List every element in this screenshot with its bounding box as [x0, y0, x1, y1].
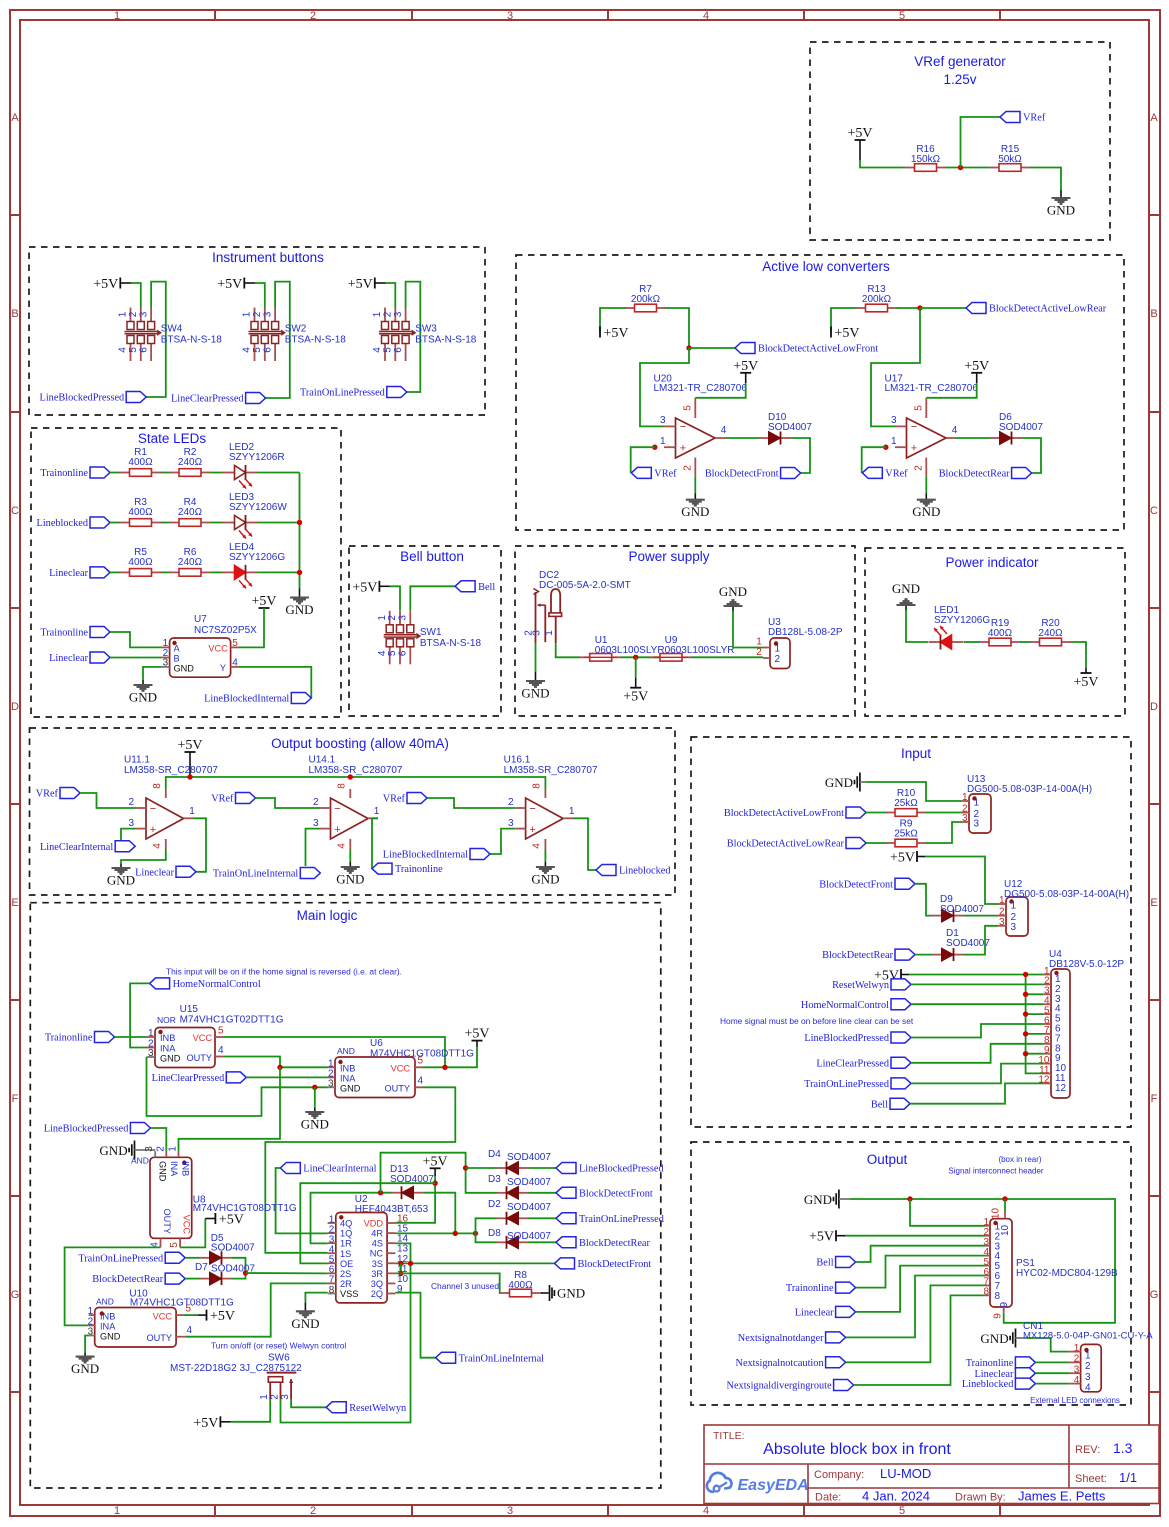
- svg-text:+5V: +5V: [219, 1213, 244, 1228]
- svg-text:BTSA-N-S-18: BTSA-N-S-18: [415, 335, 477, 346]
- net flag Bell (input): [871, 1098, 910, 1110]
- svg-text:Turn on/off (or reset) Welwyn: Turn on/off (or reset) Welwyn control: [211, 1341, 346, 1351]
- svg-text:D: D: [11, 701, 19, 713]
- svg-text:2: 2: [1074, 1354, 1080, 1365]
- title block Sheet value: [1119, 1470, 1137, 1485]
- svg-text:1Q: 1Q: [340, 1229, 352, 1239]
- power +5V (supply output): [623, 678, 648, 705]
- wire VRef to U16 pin2: [427, 798, 515, 808]
- svg-text:3: 3: [532, 630, 543, 636]
- power +5V (power indicator): [1073, 668, 1098, 690]
- svg-text:DB128L-5.08-2P: DB128L-5.08-2P: [768, 627, 843, 638]
- net flag VRef (U14): [211, 793, 255, 805]
- svg-text:E: E: [1150, 897, 1157, 909]
- svg-text:3: 3: [962, 813, 968, 824]
- svg-text:Trainonline: Trainonline: [40, 468, 88, 479]
- svg-text:5: 5: [913, 405, 924, 411]
- svg-text:+5V: +5V: [210, 1309, 235, 1324]
- svg-text:+5V: +5V: [835, 326, 860, 341]
- wire GND to PS1 pin1: [910, 1199, 985, 1226]
- net flag ResetWelwyn: [326, 1402, 406, 1414]
- net flag HomeNormalControl (main): [150, 978, 261, 990]
- svg-text:Lineblocked: Lineblocked: [619, 866, 671, 877]
- net flag BlockDetectRear (D7): [92, 1273, 185, 1285]
- note text home signal reversed: [166, 967, 402, 977]
- svg-text:BlockDetectFront: BlockDetectFront: [819, 879, 893, 890]
- svg-text:VDD: VDD: [364, 1219, 384, 1229]
- svg-text:Lineclear: Lineclear: [975, 1369, 1014, 1380]
- node junction BlockDetectActiveLowFront: [686, 345, 691, 350]
- node junction VRef divider: [958, 165, 963, 170]
- net flag TrainOnLineInternal (U2 2Q): [436, 1352, 545, 1364]
- svg-text:3: 3: [999, 917, 1005, 928]
- wire R20 to +5V: [1071, 642, 1086, 668]
- svg-text:GND: GND: [100, 1332, 121, 1342]
- svg-text:LineBlockedPressed: LineBlockedPressed: [44, 1124, 129, 1135]
- svg-text:4: 4: [1074, 1375, 1080, 1386]
- wire ResetWelwyn to U4 pin2: [911, 983, 1043, 985]
- svg-text:3S: 3S: [372, 1259, 383, 1269]
- svg-text:1: 1: [660, 436, 666, 447]
- switch SW3: [372, 308, 477, 362]
- svg-text:240Ω: 240Ω: [178, 557, 203, 568]
- net flag BlockDetectRear (ALC): [939, 468, 1032, 480]
- net flag LineBlockedPressed (input): [804, 1032, 911, 1044]
- wire U8 VCC to +5V: [180, 1219, 205, 1248]
- node junction rail +5V: [187, 774, 192, 779]
- latch U2 HEF4043BT,653: [328, 1194, 429, 1303]
- net flag Lineclear / resistor R5 / resistor R6 / LED4 row: [49, 542, 299, 589]
- svg-text:Company:: Company:: [814, 1469, 864, 1481]
- svg-text:8: 8: [329, 1285, 335, 1296]
- switch SW6 MST-22D18G2: [170, 1353, 302, 1400]
- svg-text:D4: D4: [488, 1149, 501, 1160]
- net flag LineBlockedInternal (U7): [204, 693, 311, 705]
- fuse U1: [580, 635, 665, 661]
- svg-text:1.3: 1.3: [1113, 1440, 1133, 1456]
- svg-text:G: G: [11, 1289, 20, 1301]
- wire VRef to U17 pin1: [862, 447, 886, 473]
- node junction U4 pin9: [1023, 1051, 1028, 1056]
- svg-text:240Ω: 240Ω: [178, 457, 203, 468]
- power +5V (U8): [205, 1213, 244, 1228]
- svg-text:Power indicator: Power indicator: [945, 555, 1039, 570]
- wire U14 pin4 to GND: [349, 850, 351, 863]
- wire DC2 pin1 to U1: [556, 643, 580, 657]
- svg-text:4: 4: [703, 1505, 709, 1517]
- svg-text:BTSA-N-S-18: BTSA-N-S-18: [161, 335, 223, 346]
- net flag BlockDetectActiveLowRear (input): [727, 838, 866, 850]
- wire LED1 to R19: [964, 641, 979, 643]
- wire U20 pin2 to GND: [694, 476, 696, 493]
- op-amp U17: [885, 374, 979, 477]
- resistor R20: [1030, 618, 1072, 646]
- svg-text:M74VHC1GT08DTT1G: M74VHC1GT08DTT1G: [130, 1298, 234, 1309]
- node junction D4 branch: [463, 1165, 468, 1170]
- ground GND (U16): [531, 862, 559, 887]
- node junction D13 anode: [378, 1190, 383, 1195]
- svg-text:1R: 1R: [340, 1239, 352, 1249]
- svg-text:MX128-5.0-04P-GN01-CU-Y-A: MX128-5.0-04P-GN01-CU-Y-A: [1023, 1331, 1153, 1342]
- svg-text:D8: D8: [488, 1228, 501, 1239]
- svg-text:LineClearInternal: LineClearInternal: [303, 1164, 376, 1175]
- svg-text:BlockDetectFront: BlockDetectFront: [578, 1259, 652, 1270]
- section box Main logic: [30, 903, 661, 1488]
- svg-text:U7: U7: [194, 614, 207, 625]
- svg-text:HomeNormalControl: HomeNormalControl: [173, 979, 261, 990]
- svg-text:5: 5: [899, 10, 905, 22]
- svg-text:2: 2: [155, 1146, 166, 1152]
- svg-text:G: G: [1150, 1289, 1159, 1301]
- svg-text:+: +: [334, 824, 340, 836]
- svg-text:1: 1: [775, 644, 781, 655]
- svg-text:VRef: VRef: [654, 469, 677, 480]
- ground GND (U6/U15): [301, 1108, 329, 1132]
- wire U2 VSS to GND: [305, 1293, 327, 1303]
- svg-text:2: 2: [310, 10, 316, 22]
- svg-text:SW4: SW4: [161, 324, 183, 335]
- svg-text:SOD4007: SOD4007: [507, 1202, 551, 1213]
- node dot U20 pin1: [652, 445, 657, 450]
- title block Date value: [862, 1489, 930, 1504]
- svg-text:TrainOnLinePressed: TrainOnLinePressed: [804, 1079, 890, 1090]
- svg-text:OUTY: OUTY: [162, 1208, 172, 1234]
- wire Lineclear to CN1 pin3: [1035, 1372, 1069, 1374]
- svg-text:240Ω: 240Ω: [1038, 628, 1063, 639]
- net flag Lineclear (CN1): [975, 1368, 1036, 1380]
- node junction U6 GND: [312, 1085, 317, 1090]
- svg-text:M74VHC1GT02DTT1G: M74VHC1GT02DTT1G: [180, 1015, 284, 1026]
- op-amp U16.1: [504, 755, 598, 850]
- node junction GND pin10: [1002, 1196, 1007, 1201]
- wire D13 net up to D4/D3: [381, 1153, 498, 1193]
- svg-text:A: A: [174, 644, 181, 654]
- svg-text:GND: GND: [531, 872, 559, 887]
- svg-text:SOD4007: SOD4007: [507, 1231, 551, 1242]
- wire R7 left to +5V: [600, 308, 626, 332]
- svg-text:1: 1: [1074, 1343, 1080, 1354]
- svg-text:400Ω: 400Ω: [128, 507, 153, 518]
- svg-text:GND: GND: [340, 1084, 361, 1094]
- ground GND flag (U8): [99, 1141, 155, 1160]
- svg-text:1: 1: [974, 798, 980, 809]
- ground GND flag (PS1): [804, 1190, 850, 1209]
- resistor R8: [500, 1270, 542, 1297]
- wire HomeNormalControl to U4 pin4: [911, 1003, 1043, 1005]
- svg-text:Lineblocked: Lineblocked: [37, 518, 89, 529]
- svg-text:3: 3: [508, 818, 514, 829]
- svg-text:1/1: 1/1: [1119, 1470, 1137, 1485]
- svg-text:GND: GND: [336, 872, 364, 887]
- svg-text:3: 3: [262, 311, 273, 317]
- svg-text:4: 4: [418, 1076, 424, 1087]
- svg-text:External LED connexions: External LED connexions: [1030, 1396, 1120, 1405]
- wire LineClearPressed to U4 pin8: [911, 1044, 1043, 1063]
- power +5V (SW6): [193, 1416, 230, 1431]
- svg-text:EasyEDA: EasyEDA: [738, 1477, 809, 1494]
- note text home signal must be on: [720, 1016, 914, 1026]
- svg-text:1: 1: [374, 806, 380, 817]
- svg-text:Bell button: Bell button: [400, 549, 464, 564]
- net flag TrainOnLineInternal (U14): [213, 868, 320, 880]
- switch SW4: [118, 308, 223, 362]
- ground GND (U20): [681, 493, 709, 519]
- wire LineBlockedPressed to U8 INA: [150, 1128, 166, 1151]
- svg-text:3: 3: [163, 658, 169, 669]
- wire flag to D5: [185, 1257, 199, 1259]
- wire D1 to U12 pin3: [964, 926, 999, 955]
- wire R15 to GND: [1030, 168, 1061, 191]
- svg-text:3: 3: [393, 311, 404, 317]
- svg-text:GND: GND: [291, 1316, 319, 1331]
- resistor R15: [989, 144, 1031, 171]
- power +5V (boost rail): [177, 738, 202, 777]
- svg-text:TrainOnLinePressed: TrainOnLinePressed: [300, 388, 386, 399]
- svg-text:F: F: [12, 1093, 19, 1105]
- svg-text:AND: AND: [337, 1046, 355, 1056]
- svg-text:NC: NC: [370, 1249, 384, 1259]
- svg-text:4S: 4S: [372, 1239, 383, 1249]
- wire SW1 pin3 to Bell: [410, 586, 455, 611]
- svg-text:Bell: Bell: [816, 1258, 833, 1269]
- svg-text:BTSA-N-S-18: BTSA-N-S-18: [285, 335, 347, 346]
- svg-text:5: 5: [682, 405, 693, 411]
- wire +5V to PS1 pin2: [845, 1235, 985, 1237]
- ground GND (U2): [291, 1302, 319, 1331]
- svg-text:Bell: Bell: [478, 582, 495, 593]
- net flag Lineclear (U7): [49, 652, 110, 664]
- svg-text:DG500-5.08-03P-14-00A(H): DG500-5.08-03P-14-00A(H): [1004, 889, 1129, 900]
- note text signal interconnect header: [948, 1167, 1044, 1176]
- wire 3S to BlockDetectFront: [395, 1262, 554, 1264]
- svg-text:INA: INA: [340, 1074, 356, 1084]
- power +5V (U6/U15): [464, 1027, 489, 1047]
- svg-text:+: +: [680, 443, 686, 455]
- diode D7: [195, 1262, 255, 1285]
- wire junction to rear flag: [920, 307, 966, 309]
- svg-text:LineClearInternal: LineClearInternal: [40, 842, 113, 853]
- svg-text:State LEDs: State LEDs: [138, 431, 207, 446]
- svg-text:240Ω: 240Ω: [178, 507, 203, 518]
- svg-text:4: 4: [703, 10, 709, 22]
- power +5V (U12): [890, 851, 925, 866]
- svg-text:200kΩ: 200kΩ: [631, 294, 661, 305]
- diode D13: [390, 1164, 434, 1199]
- wire D13 cathode to 4R: [424, 1193, 456, 1234]
- wire +5V down to U6 VCC: [423, 1047, 478, 1067]
- svg-text:HEF4043BT,653: HEF4043BT,653: [355, 1204, 429, 1215]
- diode D9: [932, 894, 985, 922]
- svg-text:SW2: SW2: [285, 324, 307, 335]
- svg-text:4: 4: [721, 425, 727, 436]
- wire U15 VCC to +5V node: [224, 1037, 446, 1067]
- svg-text:Lineclear: Lineclear: [49, 568, 88, 579]
- net flag LineBlockedPressed (buttons): [40, 392, 147, 404]
- ground GND (U3): [719, 584, 747, 611]
- svg-text:D3: D3: [488, 1174, 501, 1185]
- svg-text:NOR: NOR: [157, 1015, 176, 1025]
- svg-text:9: 9: [999, 1302, 1010, 1308]
- net flag BlockDetectActiveLowRear: [966, 303, 1107, 315]
- svg-text:8: 8: [995, 1291, 1001, 1302]
- wire U9 to U3 pin2: [691, 656, 763, 658]
- svg-text:M74VHC1GT08DTT1G: M74VHC1GT08DTT1G: [370, 1049, 474, 1060]
- node junction U4 pin3: [1023, 992, 1028, 997]
- net flag BlockDetectRear (input): [822, 949, 915, 961]
- net flag TrainOnLinePressed (input): [804, 1078, 911, 1090]
- svg-text:1: 1: [569, 806, 575, 817]
- wire D2 to flag: [529, 1217, 557, 1219]
- wire U10 VCC to +5V: [183, 1314, 197, 1316]
- svg-text:VRef generator: VRef generator: [914, 54, 1006, 69]
- diode D10: [759, 412, 813, 445]
- wire R13 right to junction: [897, 307, 921, 309]
- node dot U17 pin1: [883, 445, 888, 450]
- svg-text:Lineblocked: Lineblocked: [962, 1379, 1014, 1390]
- svg-text:GND: GND: [285, 602, 313, 617]
- section box Instrument buttons: [29, 247, 485, 415]
- svg-text:AND: AND: [131, 1156, 149, 1166]
- wire 1R to D13 anode: [311, 1193, 392, 1244]
- svg-text:GND: GND: [301, 1117, 329, 1132]
- resistor R13: [856, 284, 898, 312]
- svg-text:4: 4: [152, 843, 163, 849]
- svg-text:SZYY1206R: SZYY1206R: [229, 452, 285, 463]
- svg-text:6: 6: [262, 347, 273, 353]
- svg-text:GND: GND: [892, 581, 920, 596]
- svg-text:3: 3: [128, 818, 134, 829]
- svg-text:LineClearPressed: LineClearPressed: [816, 1058, 889, 1069]
- wire R13 left to +5V: [831, 308, 857, 332]
- svg-text:DG500-5.08-03P-14-00A(H): DG500-5.08-03P-14-00A(H): [967, 784, 1092, 795]
- svg-text:NC7SZ02P5X: NC7SZ02P5X: [194, 625, 257, 636]
- svg-text:SOD4007: SOD4007: [507, 1152, 551, 1163]
- svg-text:2Q: 2Q: [371, 1289, 383, 1299]
- svg-text:GND: GND: [681, 504, 709, 519]
- title block REV label: [1075, 1444, 1100, 1456]
- svg-text:LineClearPressed: LineClearPressed: [171, 394, 244, 405]
- net flag LineBlockedPressed (U8): [44, 1123, 151, 1135]
- svg-text:Home signal must be on before: Home signal must be on before line clear…: [720, 1016, 914, 1026]
- title block title text: [763, 1441, 951, 1458]
- svg-text:4: 4: [187, 1325, 193, 1336]
- wire node to VRef flag: [961, 117, 1001, 168]
- svg-text:Trainonline: Trainonline: [40, 628, 88, 639]
- svg-text:5: 5: [232, 638, 238, 649]
- svg-text:Channel 3 unused: Channel 3 unused: [431, 1281, 499, 1291]
- svg-text:3: 3: [328, 1078, 334, 1089]
- wire R9 to U13 pin3: [926, 822, 961, 843]
- power +5V (R7): [600, 326, 629, 341]
- wire Lineclear to U7 pin2: [110, 657, 161, 659]
- wire U7 pin3 to GND: [143, 667, 161, 680]
- title block Company label: [814, 1469, 864, 1481]
- svg-text:5: 5: [899, 1505, 905, 1517]
- gate U6 M74VHC1GT08DTT1G: [328, 1038, 475, 1098]
- svg-text:4R: 4R: [371, 1229, 383, 1239]
- svg-text:8: 8: [531, 783, 542, 789]
- net flag Nextsignalnotcaution: [736, 1357, 846, 1369]
- wire U6 OUTY to U2 1S: [265, 1087, 455, 1253]
- svg-text:GND: GND: [1047, 203, 1075, 218]
- net flag Bell: [455, 581, 495, 593]
- wire +5V to U17 pin5: [926, 383, 976, 398]
- wire SW6 pin2 to U2 4S: [281, 1243, 411, 1422]
- svg-text:LineBlockedInternal: LineBlockedInternal: [383, 850, 468, 861]
- svg-text:+5V: +5V: [251, 594, 276, 609]
- net flag Lineclear (U11 out): [135, 866, 196, 878]
- svg-text:SOD4007: SOD4007: [507, 1177, 551, 1188]
- svg-text:10: 10: [991, 1208, 1002, 1220]
- svg-text:LineBlockedPressed: LineBlockedPressed: [40, 393, 125, 404]
- ground GND flag (CN1): [980, 1329, 1026, 1348]
- svg-text:INB: INB: [180, 1161, 190, 1176]
- svg-text:25kΩ: 25kΩ: [894, 798, 918, 809]
- wire U16 pin4 to GND: [544, 850, 546, 863]
- svg-text:4: 4: [952, 425, 958, 436]
- ground GND (U11): [107, 864, 135, 888]
- title block TITLE label: [713, 1430, 745, 1442]
- svg-text:3: 3: [660, 415, 666, 426]
- EasyEDA logo: [707, 1473, 809, 1494]
- wire D3 to flag: [529, 1192, 557, 1194]
- svg-text:A: A: [11, 112, 19, 124]
- net flag LineBlockedInternal (U16): [383, 849, 490, 861]
- svg-text:+5V: +5V: [217, 277, 242, 292]
- node junction U6 INB: [277, 1065, 282, 1070]
- wire U14 pin3 to TrainOnLineInternal: [306, 829, 321, 866]
- svg-text:LineBlockedPressed: LineBlockedPressed: [804, 1033, 889, 1044]
- svg-text:LU-MOD: LU-MOD: [880, 1466, 931, 1481]
- wire +5V rail: [166, 777, 546, 789]
- svg-text:OE: OE: [340, 1259, 353, 1269]
- svg-text:Trainonline: Trainonline: [786, 1283, 834, 1294]
- wire node to U2 2S: [246, 1272, 328, 1274]
- svg-text:INA: INA: [160, 1044, 176, 1054]
- svg-text:VSS: VSS: [340, 1289, 358, 1299]
- svg-text:+5V: +5V: [93, 277, 118, 292]
- wire flag to R9: [866, 842, 886, 844]
- svg-text:50kΩ: 50kΩ: [998, 154, 1022, 165]
- connector PS1 HYC02-MDC804-129B: [983, 1208, 1118, 1319]
- wire U16 pin3 to LineBlockedInternal: [490, 829, 515, 854]
- net flag BlockDetectActiveLowFront: [735, 343, 878, 355]
- wire U7 Y to LineBlockedInternal: [239, 667, 312, 698]
- wire GND to CN1 pin1: [1026, 1338, 1069, 1352]
- svg-text:SW1: SW1: [420, 627, 442, 638]
- svg-text:3: 3: [280, 1394, 291, 1400]
- power +5V (U2 VDD): [423, 1154, 448, 1176]
- wire Trainonline to U15 pin1: [115, 1036, 147, 1038]
- svg-text:+5V: +5V: [809, 1230, 834, 1245]
- net flag LineClearPressed (input): [816, 1057, 911, 1069]
- net flag LineClearPressed (buttons): [171, 393, 266, 405]
- wire U10 GND to ground: [85, 1336, 89, 1353]
- svg-text:Lineclear: Lineclear: [135, 867, 174, 878]
- wire R10 to U13 pin2: [926, 812, 961, 814]
- section box Output boosting: [30, 728, 676, 895]
- gate U10 M74VHC1GT08DTT1G: [88, 1289, 234, 1348]
- gate U15 M74VHC1GT02DTT1G: [147, 1004, 284, 1068]
- svg-text:3: 3: [974, 819, 980, 830]
- svg-text:3: 3: [398, 615, 409, 621]
- svg-text:+5V: +5V: [177, 738, 202, 753]
- ground GND (U7): [129, 680, 157, 705]
- svg-text:SW6: SW6: [268, 1353, 290, 1364]
- svg-text:Power supply: Power supply: [628, 549, 709, 564]
- wire U15 OUTY to U6 INB: [224, 1057, 328, 1068]
- net flag Trainonline (U7): [40, 627, 110, 639]
